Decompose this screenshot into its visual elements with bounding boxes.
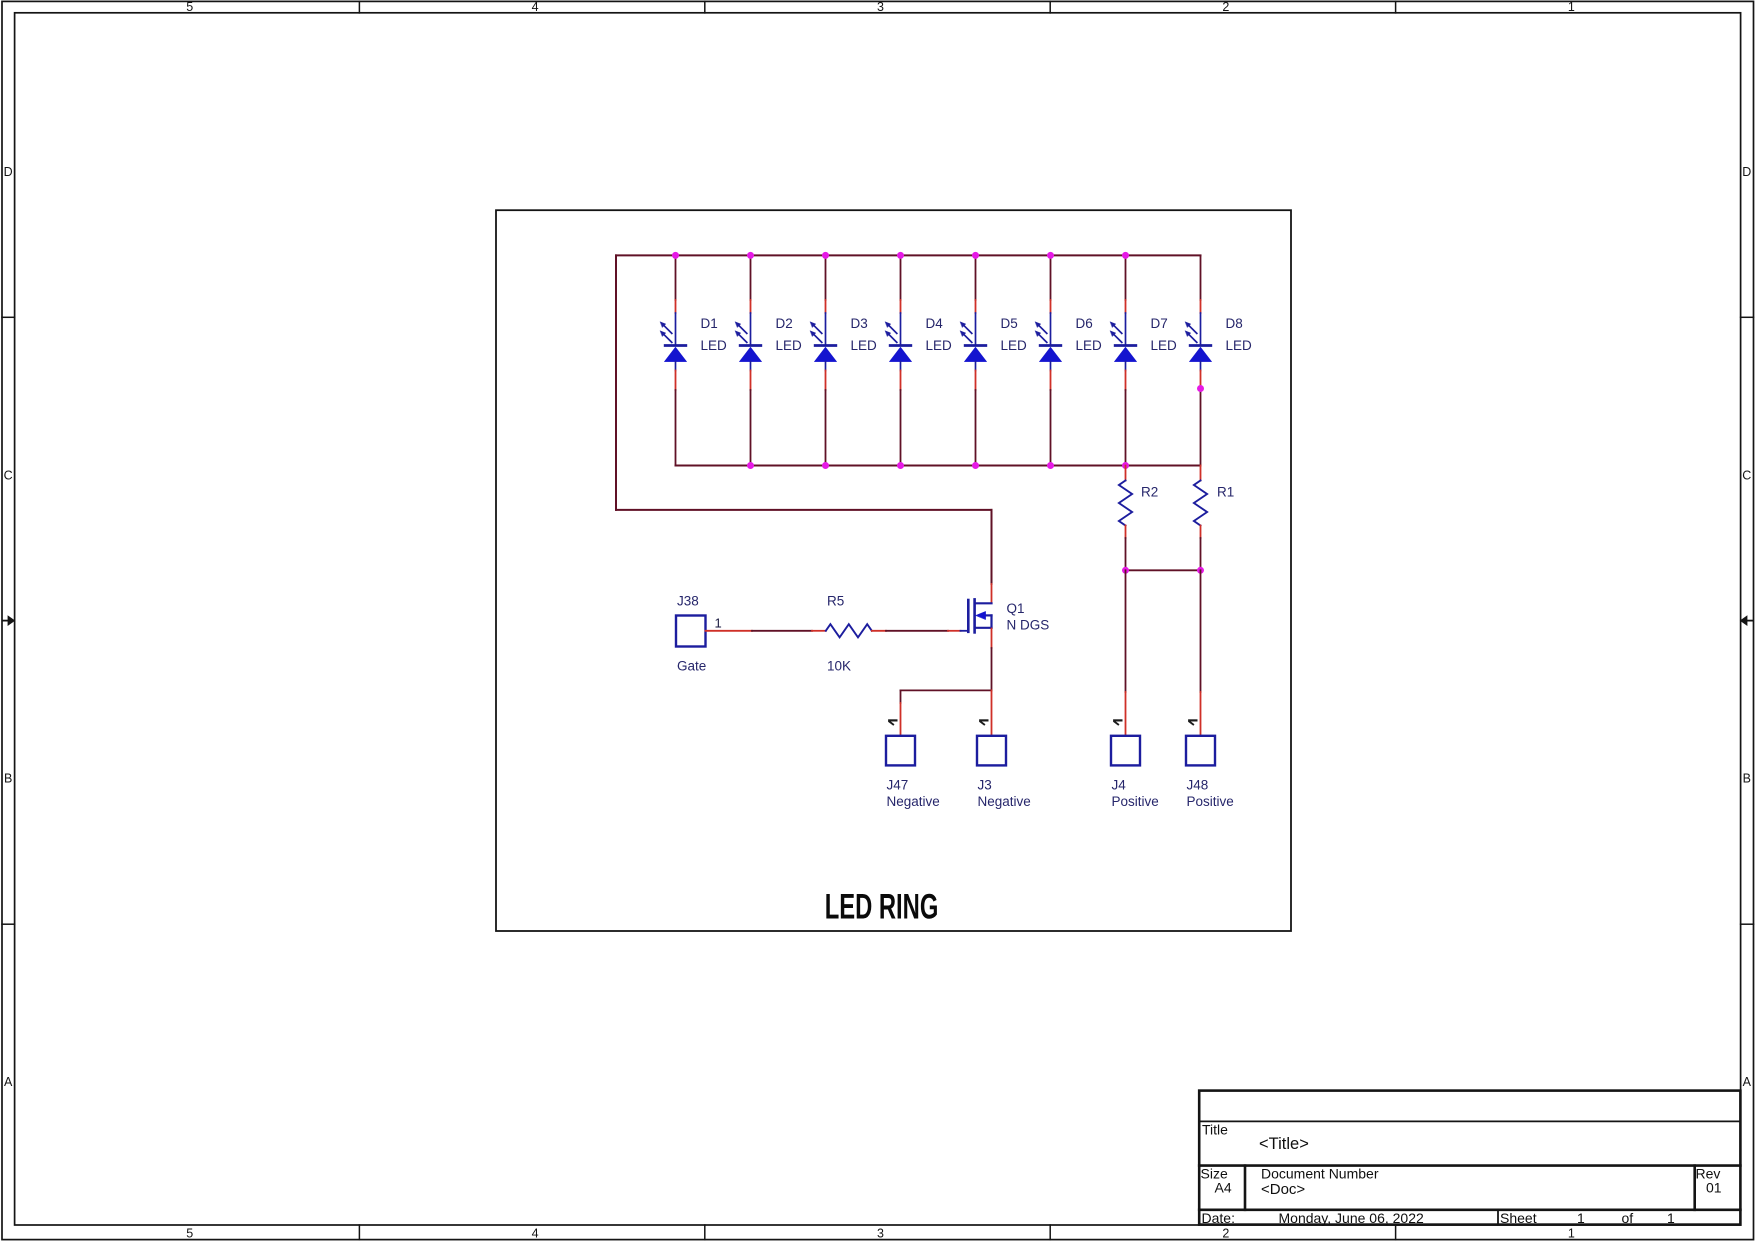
- frame row tick (right): [1741, 923, 1754, 925]
- pin number 1 (J4): [1113, 720, 1122, 725]
- svg-text:LED: LED: [1151, 338, 1178, 353]
- frame row tick (left): [2, 923, 15, 925]
- svg-text:LED RING: LED RING: [825, 888, 939, 927]
- connector J48: [1186, 736, 1215, 766]
- pin: R5 left pin: [812, 630, 826, 632]
- junction (bottom rail): [1122, 462, 1129, 469]
- svg-text:of: of: [1622, 1210, 1634, 1226]
- pin: J47 pin 1: [900, 703, 902, 736]
- svg-text:R1: R1: [1217, 485, 1234, 500]
- svg-text:5: 5: [186, 1226, 193, 1240]
- svg-text:C: C: [4, 468, 13, 482]
- pin: J48 pin 1: [1200, 692, 1202, 736]
- svg-text:2: 2: [1222, 1226, 1229, 1240]
- frame column tick (bottom): [1395, 1225, 1397, 1240]
- frame column tick (bottom): [704, 1225, 706, 1240]
- svg-text:R2: R2: [1141, 485, 1158, 500]
- svg-text:1: 1: [1667, 1210, 1675, 1226]
- svg-text:Monday, June 06, 2022: Monday, June 06, 2022: [1279, 1210, 1425, 1226]
- svg-text:Positive: Positive: [1112, 794, 1159, 809]
- LED D3: [810, 255, 837, 465]
- LED D7: [1110, 255, 1137, 465]
- junction (bottom rail): [822, 462, 829, 469]
- wire: horizontal run to Q1 drain: [616, 509, 992, 511]
- pin: Q1 drain pin stub: [991, 584, 993, 603]
- wire: drop to J4: [1125, 570, 1127, 692]
- svg-text:1: 1: [715, 616, 722, 631]
- svg-text:J38: J38: [677, 594, 699, 609]
- pin number 1 (J3): [979, 720, 988, 725]
- junction (top rail): [672, 252, 679, 259]
- frame column tick (bottom): [358, 1225, 360, 1240]
- svg-text:J4: J4: [1112, 778, 1127, 793]
- frame column tick (top): [1395, 1, 1397, 13]
- wire: R2-R1 cross connection: [1126, 569, 1201, 571]
- frame column tick (top): [704, 1, 706, 13]
- svg-text:LED: LED: [1076, 338, 1103, 353]
- junction (top rail): [1122, 252, 1129, 259]
- svg-text:Date:: Date:: [1202, 1210, 1235, 1226]
- svg-text:B: B: [1743, 772, 1751, 786]
- svg-text:LED: LED: [1226, 338, 1253, 353]
- sheet centre marker (right): [1740, 615, 1754, 626]
- pin: Q1 source pin stub: [991, 629, 993, 649]
- svg-text:LED: LED: [701, 338, 728, 353]
- connector J4: [1111, 736, 1140, 766]
- svg-text:Title: Title: [1202, 1122, 1228, 1138]
- svg-text:D7: D7: [1151, 316, 1168, 331]
- resistor R5: [826, 624, 872, 637]
- resistor R2: [1119, 466, 1132, 571]
- svg-text:A: A: [1743, 1075, 1752, 1089]
- svg-text:Sheet: Sheet: [1500, 1210, 1537, 1226]
- wire: drop to J47: [900, 690, 902, 703]
- svg-text:LED: LED: [851, 338, 878, 353]
- svg-text:D8: D8: [1226, 316, 1243, 331]
- wire: drop to J48: [1200, 570, 1202, 692]
- pin: R5 right pin: [872, 630, 886, 632]
- svg-text:01: 01: [1706, 1180, 1722, 1196]
- svg-text:D4: D4: [926, 316, 944, 331]
- svg-text:4: 4: [532, 1226, 539, 1240]
- pin number 1 (J47): [888, 720, 897, 725]
- svg-text:3: 3: [877, 1226, 884, 1240]
- frame column tick (top): [1049, 1, 1051, 13]
- pin number 1 (J48): [1188, 720, 1197, 725]
- pin: J38 pin 1: [706, 630, 753, 632]
- connector J38: [676, 616, 706, 647]
- svg-text:4: 4: [532, 0, 539, 14]
- svg-text:D1: D1: [701, 316, 718, 331]
- wire: R5 to Q1 gate: [886, 630, 948, 632]
- pin: J4 pin 1: [1125, 692, 1127, 736]
- pin: Q1 gate pin stub: [948, 630, 961, 632]
- svg-text:D5: D5: [1001, 316, 1018, 331]
- junction (bottom rail): [747, 462, 754, 469]
- svg-text:N DGS: N DGS: [1007, 618, 1050, 633]
- junction (bottom rail): [897, 462, 904, 469]
- svg-text:R5: R5: [827, 594, 844, 609]
- svg-text:Q1: Q1: [1007, 601, 1025, 616]
- svg-text:D3: D3: [851, 316, 868, 331]
- LED D8: [1185, 255, 1212, 465]
- svg-text:10K: 10K: [827, 659, 851, 674]
- junction (bottom rail): [1047, 462, 1054, 469]
- svg-text:B: B: [4, 772, 12, 786]
- svg-text:A4: A4: [1215, 1180, 1232, 1196]
- svg-text:Negative: Negative: [978, 794, 1031, 809]
- wire: cathode bottom rail: [676, 465, 1201, 467]
- svg-text:D6: D6: [1076, 316, 1093, 331]
- svg-text:D: D: [1742, 165, 1751, 179]
- svg-text:Gate: Gate: [677, 659, 706, 674]
- connector J47: [886, 736, 915, 766]
- sheet centre marker (left): [2, 615, 16, 626]
- svg-text:D: D: [4, 165, 13, 179]
- svg-text:1: 1: [1568, 0, 1575, 14]
- junction (top rail): [972, 252, 979, 259]
- frame column tick (top): [358, 1, 360, 13]
- svg-text:Positive: Positive: [1187, 794, 1234, 809]
- svg-text:J3: J3: [978, 778, 992, 793]
- frame row tick (right): [1741, 316, 1754, 318]
- title block: [1199, 1091, 1740, 1225]
- svg-text:C: C: [1742, 468, 1751, 482]
- frame row tick (left): [2, 316, 15, 318]
- LED D6: [1035, 255, 1062, 465]
- svg-text:3: 3: [877, 0, 884, 14]
- svg-text:LED: LED: [776, 338, 803, 353]
- resistor R1: [1194, 466, 1207, 571]
- junction (R1 node): [1197, 567, 1204, 574]
- transistor Q1 N-MOSFET: [961, 599, 992, 632]
- wire: left drop from top rail: [615, 255, 617, 510]
- junction (top rail): [822, 252, 829, 259]
- connector J3: [977, 736, 1006, 766]
- svg-text:1: 1: [1577, 1210, 1585, 1226]
- svg-text:<Doc>: <Doc>: [1261, 1181, 1305, 1198]
- junction (top rail): [897, 252, 904, 259]
- LED RING schematic enclosure box: [496, 210, 1291, 931]
- frame column tick (bottom): [1049, 1225, 1051, 1240]
- LED D5: [960, 255, 987, 465]
- wire: J38 to R5: [752, 630, 812, 632]
- junction (top rail): [1047, 252, 1054, 259]
- junction (R2 node): [1122, 567, 1129, 574]
- svg-text:J48: J48: [1187, 778, 1209, 793]
- wire: source rail to J47: [901, 689, 992, 691]
- svg-text:LED: LED: [1001, 338, 1028, 353]
- wire: anode top rail: [616, 254, 1201, 256]
- svg-text:Document Number: Document Number: [1261, 1166, 1379, 1182]
- wire: drop to Q1 drain: [991, 510, 993, 584]
- wire: Q1 source drop: [991, 648, 993, 690]
- LED D1: [660, 255, 687, 465]
- junction (top rail): [747, 252, 754, 259]
- svg-text:1: 1: [1568, 1226, 1575, 1240]
- svg-text:A: A: [4, 1075, 13, 1089]
- svg-text:5: 5: [186, 0, 193, 14]
- svg-text:Negative: Negative: [887, 794, 940, 809]
- LED D2: [735, 255, 762, 465]
- LED D4: [885, 255, 912, 465]
- junction (D8 column): [1197, 385, 1204, 392]
- pin: J3 pin 1: [991, 690, 993, 735]
- svg-text:D2: D2: [776, 316, 793, 331]
- svg-text:LED: LED: [926, 338, 953, 353]
- svg-text:J47: J47: [887, 778, 909, 793]
- junction (bottom rail): [972, 462, 979, 469]
- svg-text:<Title>: <Title>: [1259, 1135, 1309, 1153]
- svg-text:2: 2: [1222, 0, 1229, 14]
